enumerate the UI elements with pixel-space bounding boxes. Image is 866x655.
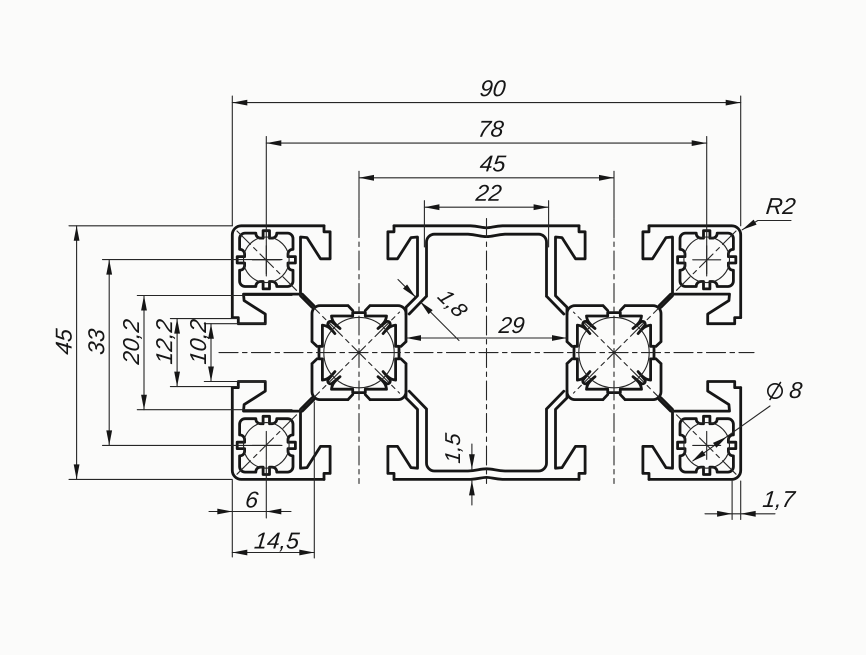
dimension 6 bottom-left [209, 460, 291, 557]
dimension 33 left [88, 260, 282, 446]
corner screw boss cavity top-left [237, 231, 295, 289]
center cross corner bore top-left [252, 246, 280, 274]
bore thread circle right (thin) [579, 317, 649, 387]
dimension 12,2 left [156, 319, 238, 387]
corner bore circle d8 top-right (thin) [684, 237, 730, 283]
dimension 1,8 chamfer wall [398, 280, 469, 341]
T-slot right side [659, 294, 741, 411]
T-slot top-left [301, 226, 418, 314]
central boss/bore tower left [312, 306, 406, 400]
corner bore circle d8 bottom-left (thin) [243, 423, 289, 469]
dimension 29 central cavity [406, 317, 567, 341]
central cavity top wall inner face [409, 234, 564, 314]
radius R2 leader [742, 198, 796, 230]
vertical centerline profile middle [486, 219, 488, 484]
corner bore circle d8 bottom-right (thin) [684, 423, 730, 469]
T-slot left side [232, 294, 313, 411]
vertical centerline right bore [613, 219, 615, 484]
diagonal centerline BR [574, 312, 737, 474]
corner screw boss cavity top-right [678, 231, 736, 289]
dimension 22 top [424, 185, 548, 247]
central cavity bottom wall inner face [409, 391, 564, 471]
dimension 1,7 bottom-right [705, 481, 796, 520]
corner screw boss cavity bottom-right [678, 416, 736, 474]
diameter 8 leader [692, 382, 803, 462]
dimension 45 left [56, 226, 233, 480]
dimension 90 top [232, 80, 740, 226]
diagonal centerline TR [574, 231, 737, 393]
dimension 20,2 left [123, 296, 292, 410]
diagonal centerline BL [237, 312, 400, 474]
T-slot bottom-left [301, 391, 418, 480]
horizontal centerline [219, 352, 754, 354]
center cross corner bore top-right [693, 246, 721, 274]
bore thread circle left (thin) [324, 317, 394, 387]
center cross corner bore bottom-right [693, 431, 721, 459]
T-slot bottom-right [556, 391, 673, 480]
T-slot top-right [556, 226, 673, 314]
profile outer skin (90x45 contour with T-slot openings) [232, 226, 740, 480]
corner screw boss cavity bottom-left [237, 416, 295, 474]
dimension 10,2 left [190, 319, 266, 382]
dimension 45 top [359, 156, 614, 218]
center cross corner bore bottom-left [252, 431, 280, 459]
dimension 1,5 bottom wall [445, 432, 475, 505]
dimension 78 top [266, 121, 706, 276]
corner bore circle d8 top-left (thin) [243, 237, 289, 283]
central boss/bore tower right [567, 306, 661, 400]
dimension 14,5 bottom-left [232, 402, 314, 558]
vertical centerline left bore [358, 219, 360, 484]
diagonal centerline TL [237, 231, 400, 393]
